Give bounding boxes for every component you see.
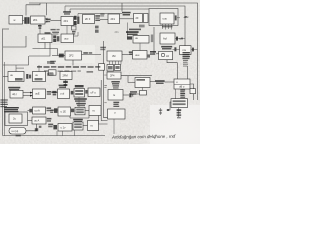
node drop x122 <box>121 3 123 12</box>
component stack under U <box>63 80 68 89</box>
block T <box>65 51 82 60</box>
enclosing rect around B8 <box>149 9 178 26</box>
bus band 1 <box>37 66 100 68</box>
svg-text:JM: JM <box>112 54 115 58</box>
svg-text:2F: 2F <box>136 16 139 20</box>
block B10 <box>159 51 173 59</box>
component A2-A3 <box>85 90 87 94</box>
wire border to B13 <box>3 76 8 78</box>
top wire C <box>65 6 185 52</box>
block B14 <box>33 72 46 82</box>
svg-text:2Fv: 2Fv <box>115 30 120 34</box>
wire left of U3 <box>168 102 172 110</box>
block S <box>133 36 149 44</box>
component B1p-B2p <box>71 109 74 113</box>
block B5 <box>83 15 95 24</box>
top border wire A <box>29 3 198 100</box>
svg-text:u ul: u ul <box>60 92 65 96</box>
pins under J <box>110 61 122 65</box>
block U3 <box>171 99 188 108</box>
svg-text:2F2: 2F2 <box>69 54 74 58</box>
component between R1 R2 <box>53 35 59 42</box>
bus band 2 <box>44 70 81 72</box>
wire rowB to rowC <box>70 116 89 119</box>
dark text column right <box>183 52 190 67</box>
left label of A1 <box>48 89 56 95</box>
svg-text:Auf: Auf <box>163 37 167 41</box>
wire B20 right with mark <box>26 124 41 131</box>
labels under L <box>113 102 119 107</box>
vertical bus line 2 <box>101 80 107 121</box>
block B7a <box>134 14 143 23</box>
top wire E <box>78 13 122 15</box>
small marks bottom mid-right <box>159 108 162 115</box>
label right of B14 <box>47 73 54 76</box>
label right on band2 <box>87 71 94 73</box>
block R2 <box>61 34 74 43</box>
left margin text rows <box>0 99 7 107</box>
bottom border ticks <box>16 135 21 137</box>
svg-text:2F4: 2F4 <box>110 74 115 78</box>
wire W down <box>142 88 144 91</box>
bus side tick labels <box>104 75 107 104</box>
block B8 <box>160 13 174 24</box>
dark text block above box17 <box>4 107 19 112</box>
block M <box>108 109 126 119</box>
svg-text:uuu: uuu <box>135 54 140 57</box>
bottom border <box>3 135 105 137</box>
label under B8b <box>161 46 172 50</box>
component chain under B4 <box>72 26 77 35</box>
wire U17 to B18 <box>28 109 30 111</box>
svg-text:uuu: uuu <box>163 17 168 20</box>
block B6 <box>108 14 120 24</box>
block C3 <box>88 121 99 131</box>
block U17 inner <box>9 114 22 123</box>
block B18 <box>33 107 46 114</box>
wire C2-C3 <box>83 125 88 127</box>
block K <box>133 51 148 60</box>
svg-text:u01: u01 <box>41 36 46 40</box>
wire right of R2 going up <box>74 32 79 36</box>
component on wire into T <box>59 54 64 58</box>
label left of B10 with arrow <box>150 51 159 55</box>
block C1 <box>58 124 72 132</box>
wire U2 down to U3 <box>175 89 177 99</box>
top wire D <box>70 8 149 10</box>
block B9 <box>180 46 192 55</box>
block A2 <box>74 89 85 98</box>
block B8b <box>160 33 175 44</box>
outer rect of U17 <box>5 112 28 126</box>
wire into T <box>52 55 65 57</box>
small box J1 under J <box>107 65 114 72</box>
block B2 mixer <box>31 16 46 24</box>
header label above B4 <box>63 11 71 14</box>
paper mottling <box>0 0 200 144</box>
vertical label col right of S <box>151 35 153 43</box>
label right of T <box>82 52 102 54</box>
wire above R2 <box>66 26 68 35</box>
top wire C drop <box>64 6 66 13</box>
block B4 <box>61 17 74 26</box>
top wire E drop <box>77 14 79 18</box>
label above R1 <box>45 32 51 34</box>
wire left top stub <box>3 28 9 30</box>
wire U2 right loop <box>190 84 194 100</box>
label right of B16 <box>47 91 58 95</box>
svg-text:2FM: 2FM <box>63 74 68 78</box>
label right of B19 <box>47 118 52 122</box>
left border inner line <box>3 62 5 136</box>
label above band start <box>47 61 54 64</box>
label left of B6 <box>100 13 104 16</box>
svg-text:uu (u): uu (u) <box>12 129 19 133</box>
transformer T1 <box>24 17 29 24</box>
wire y56 <box>29 43 50 57</box>
wire into B14 <box>38 65 40 72</box>
component right of B8b <box>175 37 185 41</box>
block B3p <box>89 106 101 116</box>
wire into B4 <box>51 20 62 22</box>
faint marks left of band1 <box>16 68 24 69</box>
svg-text:uu A: uu A <box>35 109 40 113</box>
label right of B5 <box>95 15 100 21</box>
marks under B7 <box>139 25 145 28</box>
wire B1-T1 <box>23 19 25 21</box>
block B15 <box>10 90 23 98</box>
block W <box>135 78 150 88</box>
dark column under U2 <box>180 89 185 99</box>
wire W right <box>150 81 155 83</box>
svg-text:w: w <box>14 19 16 22</box>
block B16 <box>33 89 46 99</box>
label between B6 and B7 <box>122 12 131 16</box>
small box right of U2 <box>190 89 196 94</box>
wire V right long <box>121 75 152 77</box>
component A1-A2 <box>71 91 74 95</box>
component pair between B4 and B5 <box>74 16 79 25</box>
component left of S <box>127 36 132 39</box>
label right of B18 <box>47 107 59 111</box>
vertical bus line 1 <box>103 41 107 117</box>
svg-text:u(L): u(L) <box>12 92 17 96</box>
component stack under U3 <box>177 108 182 119</box>
svg-text:u 1v: u 1v <box>61 125 67 129</box>
block B19 <box>32 117 46 124</box>
top wire D drop <box>69 9 71 13</box>
svg-text:-dBc: -dBc <box>183 17 189 19</box>
wire under row2 <box>33 43 58 56</box>
small box on band2 <box>49 70 57 75</box>
left border <box>2 29 4 136</box>
left label row C <box>48 124 57 130</box>
node drop x46 <box>45 3 47 15</box>
wire into W <box>128 76 135 83</box>
wire A2 down <box>78 97 80 107</box>
block L <box>108 90 123 101</box>
svg-text:uF u: uF u <box>91 90 97 94</box>
vertical bus line 3 <box>98 108 107 124</box>
svg-text:2F1: 2F1 <box>111 17 116 21</box>
paper background <box>0 0 200 144</box>
component right of B9 <box>191 48 198 52</box>
vertical line x154 <box>153 27 155 54</box>
block A3 <box>88 88 100 97</box>
wire left bus y47 <box>3 36 26 47</box>
block B7b <box>144 14 149 23</box>
block V small (on bus) <box>99 64 105 70</box>
block R1 <box>38 34 52 43</box>
wire S down to K <box>139 43 141 51</box>
wire into B6 <box>100 19 108 21</box>
svg-text:Artiďağnğan com đelɖhone , ınd: Artiďağnğan com đelɖhone , ınď <box>111 134 177 140</box>
component between B13 B14 <box>26 74 31 79</box>
block U2 <box>174 79 190 89</box>
svg-text:2F F: 2F F <box>85 17 91 21</box>
component right of B8 <box>175 15 180 20</box>
wire into B13 <box>15 65 17 72</box>
svg-text:2F1: 2F1 <box>33 18 38 22</box>
svg-text:uuE: uuE <box>35 92 40 96</box>
label left of U2 <box>155 80 174 84</box>
long drop wires to U2 <box>177 63 179 79</box>
svg-text:uB u: uB u <box>179 85 185 89</box>
block A1 <box>58 89 70 99</box>
arrow wires B15 to B16 <box>23 92 33 97</box>
svg-text:2F1: 2F1 <box>64 19 69 23</box>
small box under W <box>140 91 147 96</box>
arrow mark left of U3 <box>167 109 169 111</box>
top wire B <box>26 3 40 16</box>
wire left bus y65 <box>3 56 29 65</box>
component right of L <box>129 93 134 97</box>
header label above A1 <box>59 85 67 88</box>
component hanging under B2 <box>38 24 42 34</box>
label between J and K <box>122 51 134 54</box>
label above S <box>126 29 141 35</box>
blobs under B5 <box>95 26 99 33</box>
svg-text:u 1E: u 1E <box>61 110 67 114</box>
label under B4 left <box>51 29 60 35</box>
wire L right <box>123 94 129 96</box>
block B13 <box>8 72 24 82</box>
wire M bottom drop <box>113 119 115 134</box>
pins under B8 <box>162 24 173 30</box>
left label row B <box>50 108 57 113</box>
wire B10 bottom to right column <box>167 60 178 63</box>
header above A2 <box>75 85 84 87</box>
block C2 <box>73 122 83 130</box>
wire T bottom drop <box>72 60 74 66</box>
component left of B9 <box>173 47 180 51</box>
wire into B7 <box>120 18 134 20</box>
labels under V <box>111 81 119 89</box>
wire B7 down to S <box>127 23 129 37</box>
rounded block B20 <box>9 128 26 135</box>
wires row C to bottom border <box>57 130 75 136</box>
small box J2 under J <box>115 65 121 71</box>
block U <box>60 72 72 80</box>
block V <box>107 72 121 79</box>
svg-text:uu A: uu A <box>34 119 39 123</box>
label right of K <box>147 54 150 57</box>
label left of band2 <box>50 61 56 64</box>
label left of J <box>100 47 106 51</box>
block B2p <box>75 107 85 115</box>
wire U17 to B19 <box>28 119 33 121</box>
header label above B15 <box>8 87 20 91</box>
svg-text:uuu: uuu <box>64 37 69 40</box>
block B1 oscillator <box>9 16 23 25</box>
label left-under W <box>130 91 140 95</box>
component left of B18 <box>29 109 32 113</box>
wire B2p-B3p <box>85 110 89 112</box>
block J <box>107 51 122 61</box>
block B1p <box>58 107 71 116</box>
scan mottling noise <box>0 0 200 144</box>
